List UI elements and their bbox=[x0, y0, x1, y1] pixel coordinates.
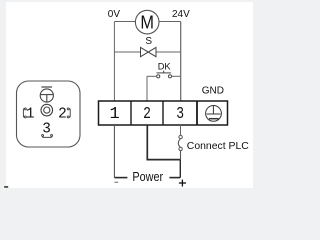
svg-text:Connect PLC: Connect PLC bbox=[187, 140, 249, 152]
wire power plus segment bbox=[169, 177, 180, 179]
wire terminal1 down to Power minus bbox=[113, 125, 115, 178]
wire motor to 24V corner bbox=[159, 21, 181, 23]
terminal strip outline bbox=[99, 101, 228, 125]
connector screw circle bbox=[40, 89, 53, 102]
wire power minus segment bbox=[114, 177, 127, 179]
wire S right bbox=[156, 51, 181, 53]
svg-text:0V: 0V bbox=[108, 9, 121, 20]
wire right rail bbox=[180, 22, 182, 102]
wire junction down to plus corner bbox=[179, 160, 181, 178]
Connect PLC contact symbol bbox=[178, 135, 182, 150]
svg-text:3: 3 bbox=[176, 105, 184, 124]
terminal divider 2|3 bbox=[162, 101, 164, 125]
svg-text:1: 1 bbox=[26, 107, 35, 123]
svg-text:24V: 24V bbox=[172, 9, 190, 20]
minus sign bbox=[115, 181, 119, 183]
svg-text:GND: GND bbox=[202, 85, 224, 96]
connector pin 3 contact bbox=[42, 134, 53, 137]
connector pin 1 contact bbox=[23, 108, 26, 118]
connector face outline bbox=[17, 81, 81, 147]
wire top-left 0V to motor bbox=[114, 21, 135, 23]
connector centre hole bbox=[41, 104, 53, 116]
svg-text:2: 2 bbox=[58, 107, 67, 123]
switch S bowtie valve symbol bbox=[141, 47, 157, 56]
svg-text:S: S bbox=[145, 36, 152, 47]
wire terminal3 down to PLC contact bbox=[180, 125, 182, 135]
terminal divider 1|2 bbox=[130, 101, 132, 125]
svg-text:M: M bbox=[140, 12, 154, 32]
wire DK left bbox=[147, 75, 157, 77]
svg-text:2: 2 bbox=[143, 105, 151, 124]
svg-text:1: 1 bbox=[109, 105, 119, 124]
wire PLC contact down to junction bbox=[180, 151, 182, 160]
connector pin 2 contact bbox=[67, 108, 70, 118]
white content area bbox=[6, 2, 253, 188]
wire left rail bbox=[113, 22, 115, 102]
wire S left bbox=[114, 51, 140, 53]
pushbutton DK symbol bbox=[157, 71, 172, 78]
protective earth terminal symbol bbox=[206, 106, 222, 122]
bottom-left smudge bbox=[4, 186, 8, 188]
motor M1 circle bbox=[135, 10, 159, 34]
terminal divider 3|PE bbox=[196, 101, 198, 125]
wire DK drop to terminal 2 bbox=[146, 76, 148, 101]
wire DK right bbox=[172, 75, 181, 77]
plus sign bbox=[179, 180, 186, 187]
svg-text:DK: DK bbox=[158, 61, 172, 71]
svg-text:Power: Power bbox=[132, 170, 163, 184]
connector screw tab bar bbox=[41, 86, 52, 88]
wire terminal2 L-shape to plus node bbox=[147, 125, 180, 160]
